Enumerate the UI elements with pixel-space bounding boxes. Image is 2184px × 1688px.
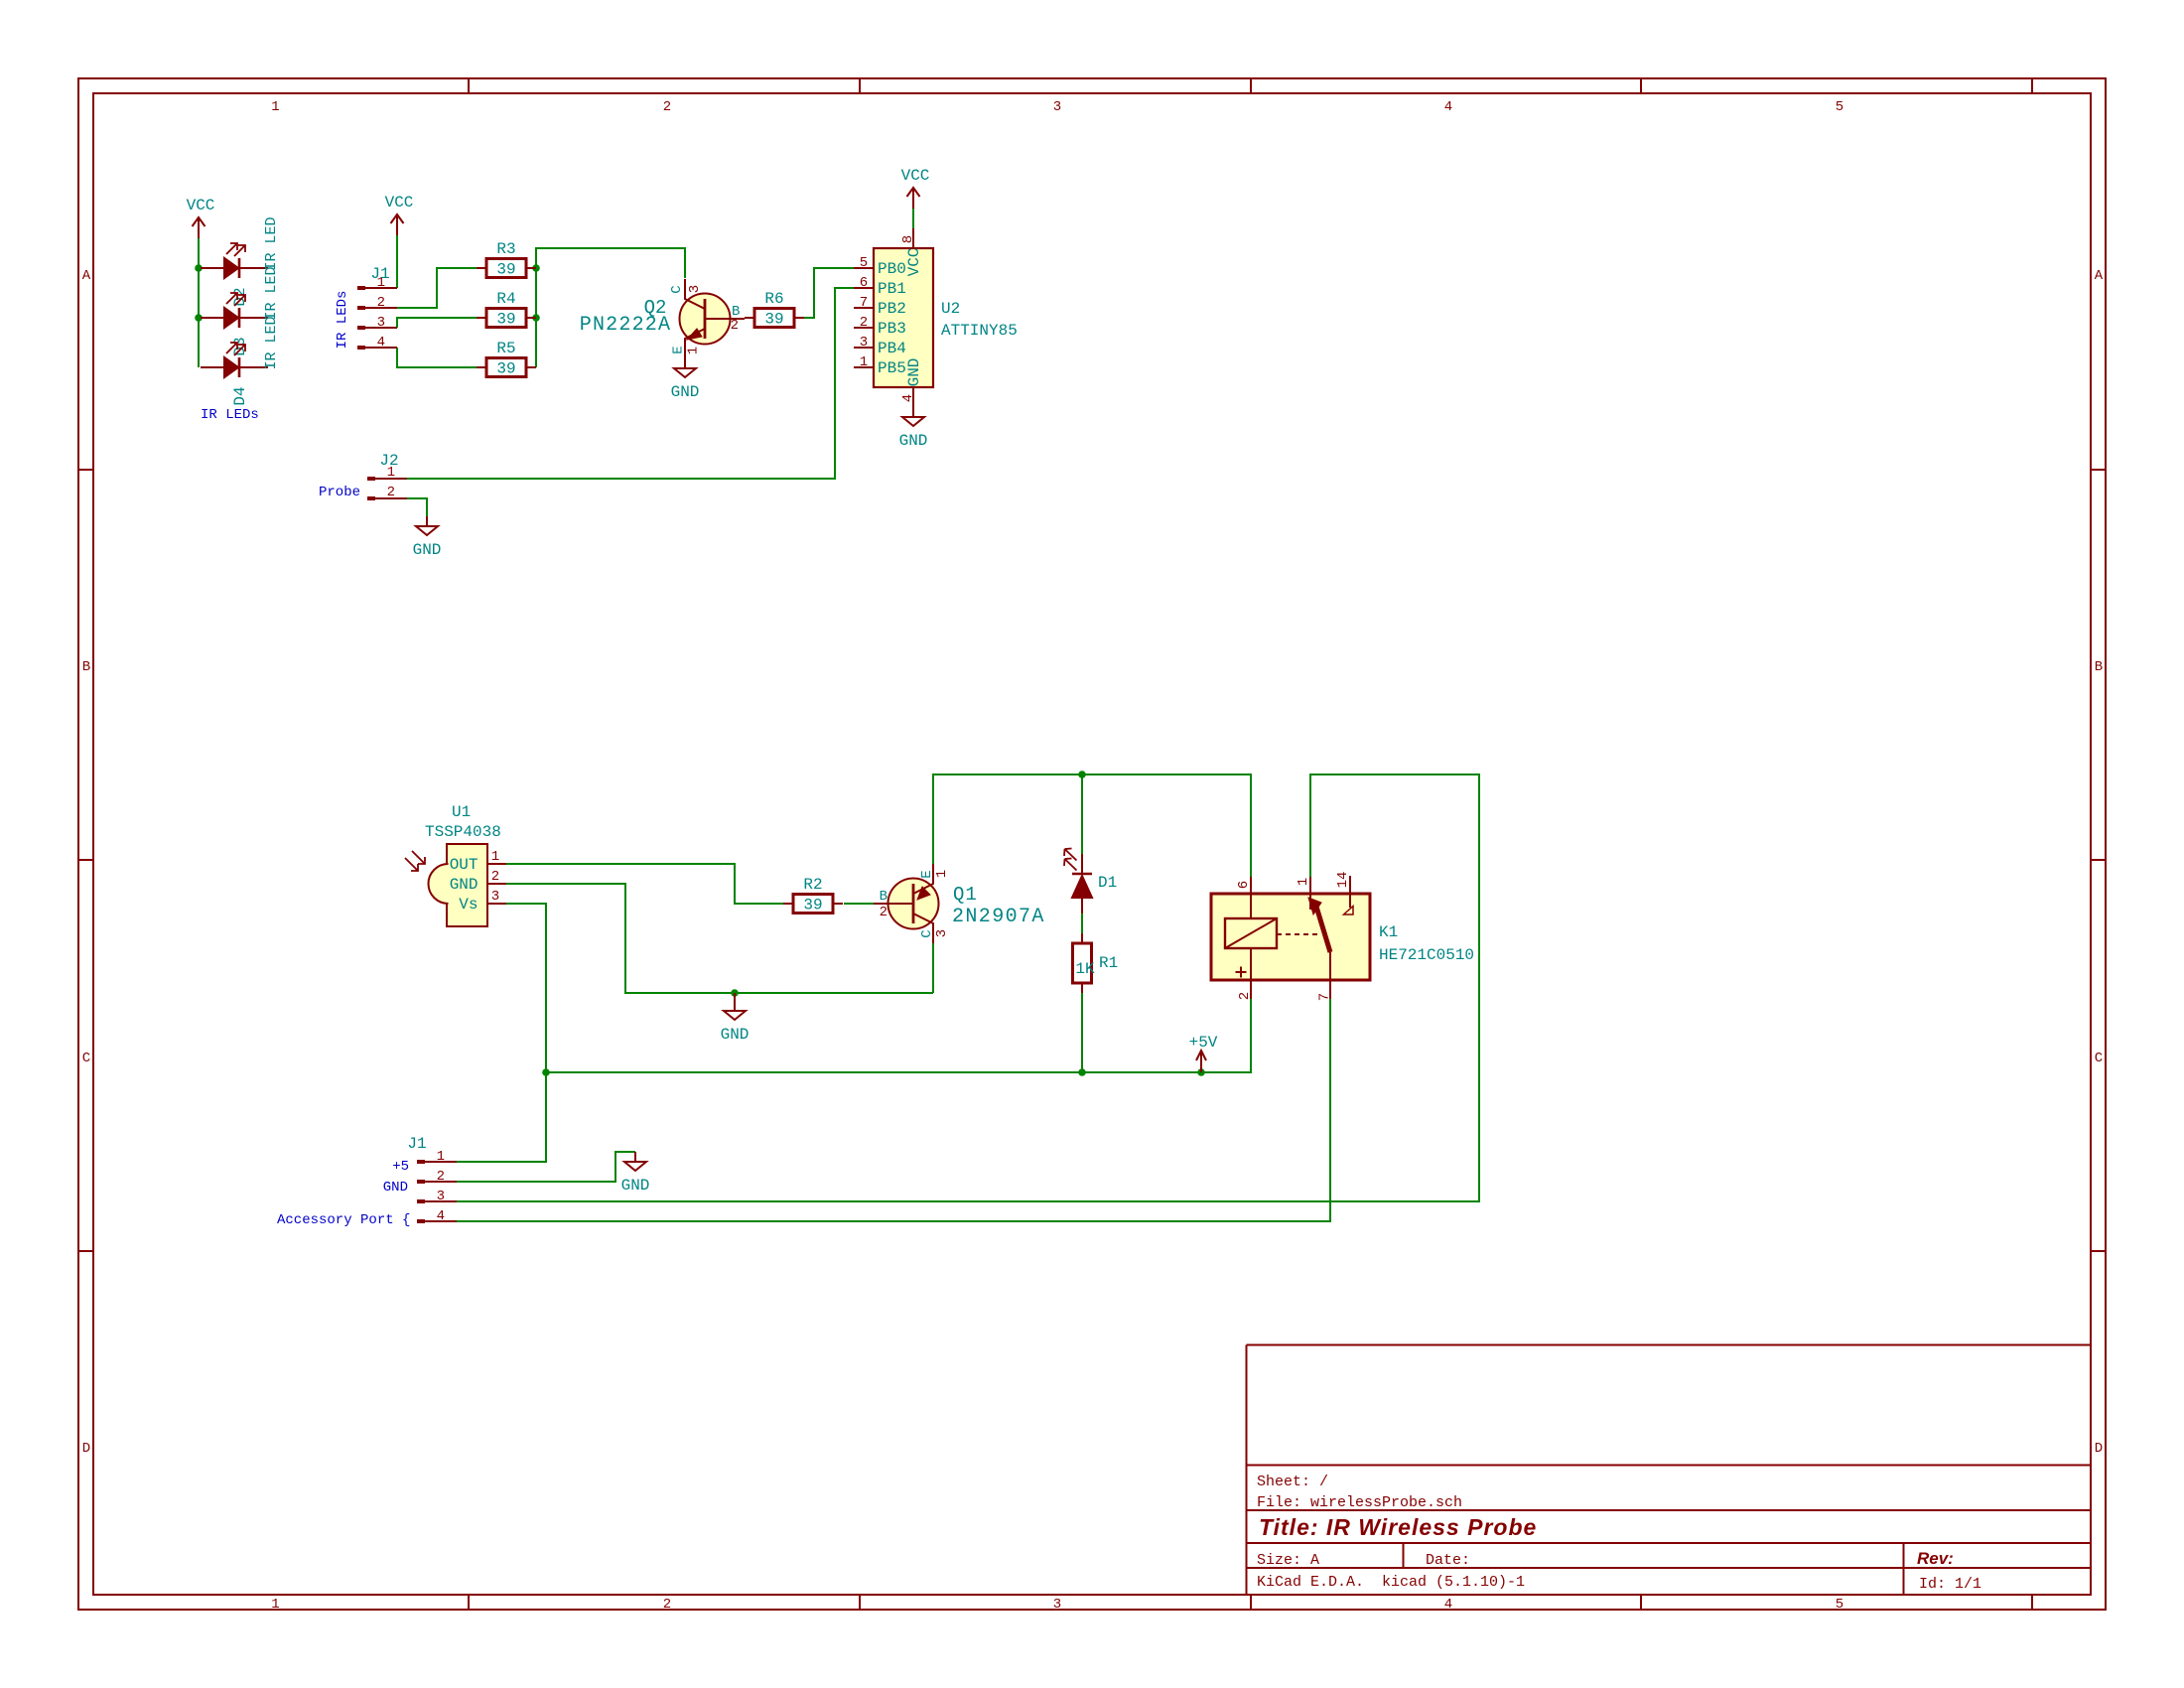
svg-text:B: B	[82, 659, 90, 675]
diode D2 IR LED	[201, 267, 224, 269]
svg-text:PB4: PB4	[878, 340, 906, 357]
svg-text:2: 2	[491, 869, 499, 885]
resistor R3 39	[477, 267, 486, 269]
svg-text:Accessory Port {: Accessory Port {	[277, 1212, 410, 1228]
wire D1 branch from rail	[1081, 774, 1083, 854]
svg-text:Rev:: Rev:	[1917, 1549, 1954, 1568]
frame row ticks	[78, 469, 93, 471]
relay pin 1	[1309, 877, 1311, 910]
svg-text:2: 2	[731, 318, 739, 334]
wire Q1 emitter to relay pin6	[933, 774, 1251, 877]
svg-text:PB1: PB1	[878, 280, 906, 298]
ic U2 ATTINY85	[874, 248, 933, 387]
wire J1 pin2 to GND symbol	[457, 1152, 635, 1182]
svg-text:C: C	[2095, 1051, 2103, 1066]
wire R2 to Q1 base	[844, 903, 874, 905]
svg-text:Id: 1/1: Id: 1/1	[1919, 1576, 1981, 1593]
svg-text:5: 5	[1836, 99, 1843, 115]
svg-text:1: 1	[437, 1149, 445, 1165]
svg-text:+5V: +5V	[1189, 1034, 1218, 1052]
ground (J2)	[426, 516, 428, 526]
ground (Q2 emitter)	[684, 358, 686, 368]
svg-text:1K: 1K	[1075, 960, 1095, 978]
svg-text:HE721C0510: HE721C0510	[1379, 946, 1474, 964]
svg-text:7: 7	[860, 295, 868, 311]
svg-text:2: 2	[377, 295, 385, 311]
connector J2 (Probe)	[367, 477, 375, 481]
svg-text:GND: GND	[721, 1026, 750, 1044]
wire VCC to J1 pin1	[396, 235, 398, 288]
svg-text:1: 1	[271, 1597, 279, 1613]
ground (U2)	[912, 407, 914, 417]
relay coil	[1225, 918, 1277, 948]
svg-text:GND: GND	[621, 1177, 650, 1195]
wire J1 pin3 to R4	[397, 318, 477, 328]
svg-text:VCC: VCC	[187, 197, 215, 214]
svg-text:1: 1	[686, 347, 702, 354]
svg-text:IR LEDs: IR LEDs	[335, 291, 350, 350]
resistor R1 1K	[1073, 943, 1092, 983]
svg-text:3: 3	[437, 1189, 445, 1204]
svg-text:PB5: PB5	[878, 359, 906, 377]
svg-text:OUT: OUT	[450, 856, 478, 874]
svg-text:IR LEDs: IR LEDs	[201, 407, 259, 423]
svg-text:1: 1	[934, 870, 950, 878]
junction D2-D3	[195, 314, 203, 322]
svg-text:Date:: Date:	[1426, 1552, 1470, 1569]
svg-text:2: 2	[1237, 992, 1253, 1000]
junction VCC-D2	[195, 264, 203, 272]
svg-text:File: wirelessProbe.sch: File: wirelessProbe.sch	[1257, 1494, 1462, 1511]
svg-text:GND: GND	[671, 383, 700, 401]
svg-text:PB0: PB0	[878, 260, 906, 278]
svg-text:Size: A: Size: A	[1257, 1552, 1319, 1569]
transistor Q1 2N2907A	[888, 879, 939, 929]
title block	[1247, 1345, 2092, 1596]
junction +5V rail Vs	[542, 1068, 550, 1076]
svg-text:1: 1	[491, 849, 499, 865]
relay pin 6	[1250, 877, 1252, 918]
svg-text:J1: J1	[370, 265, 389, 283]
wire J1 pin4 to R5	[397, 348, 477, 367]
svg-text:1: 1	[1296, 878, 1311, 886]
power VCC (LED rail)	[198, 217, 200, 238]
wire Q1 collector to ground line	[932, 943, 934, 993]
svg-text:IR LED: IR LED	[263, 216, 280, 270]
svg-text:2: 2	[437, 1169, 445, 1185]
svg-text:PB3: PB3	[878, 320, 906, 338]
junction ground line	[731, 989, 739, 997]
svg-text:PB2: PB2	[878, 300, 906, 318]
svg-text:A: A	[82, 268, 91, 284]
svg-text:R1: R1	[1099, 954, 1118, 972]
diode D3 IR LED	[201, 317, 224, 319]
svg-text:2: 2	[663, 99, 671, 115]
svg-text:14: 14	[1335, 872, 1351, 889]
svg-text:D4: D4	[231, 386, 249, 405]
svg-text:7: 7	[1317, 993, 1333, 1001]
junction +5V rail symbol	[1197, 1068, 1205, 1076]
power +5V	[1200, 1051, 1202, 1072]
svg-text:D1: D1	[1098, 874, 1117, 892]
resistor R2 39	[783, 903, 793, 905]
svg-text:Title: IR Wireless Probe: Title: IR Wireless Probe	[1259, 1514, 1537, 1540]
svg-text:U2: U2	[941, 300, 960, 318]
junction R4 output	[532, 314, 540, 322]
svg-text:39: 39	[496, 261, 515, 279]
svg-text:+5: +5	[392, 1159, 409, 1175]
svg-text:A: A	[2095, 268, 2104, 284]
svg-text:3: 3	[860, 335, 868, 351]
svg-text:C: C	[669, 285, 685, 293]
wire VCC rail to LED anodes	[198, 238, 200, 367]
svg-text:J2: J2	[379, 452, 398, 470]
relay plus sign	[1236, 967, 1247, 978]
svg-text:R5: R5	[496, 340, 515, 357]
svg-text:4: 4	[1444, 1597, 1452, 1613]
svg-text:2: 2	[880, 905, 887, 920]
svg-text:E: E	[919, 870, 935, 878]
svg-text:3: 3	[1053, 99, 1061, 115]
svg-text:C: C	[919, 929, 935, 937]
svg-text:2: 2	[860, 315, 868, 331]
svg-text:ATTINY85: ATTINY85	[941, 322, 1018, 340]
junction R3 output	[532, 264, 540, 272]
svg-text:TSSP4038: TSSP4038	[425, 823, 501, 841]
svg-text:39: 39	[496, 311, 515, 329]
svg-text:2: 2	[663, 1597, 671, 1613]
svg-text:GND: GND	[413, 541, 442, 559]
svg-text:E: E	[671, 346, 687, 353]
svg-text:B: B	[880, 889, 887, 905]
svg-text:Sheet: /: Sheet: /	[1257, 1474, 1328, 1490]
power VCC (J1)	[396, 214, 398, 235]
svg-text:R3: R3	[496, 240, 515, 258]
wire R3/R4/R5 common to Q2 collector	[536, 248, 685, 367]
svg-text:39: 39	[496, 360, 515, 378]
svg-text:VCC: VCC	[385, 194, 414, 211]
svg-text:Vs: Vs	[459, 896, 478, 914]
resistor R4 39	[477, 317, 486, 319]
relay switch arm	[1316, 907, 1330, 952]
svg-text:KiCad E.D.A. kicad (5.1.10)-1: KiCad E.D.A. kicad (5.1.10)-1	[1257, 1574, 1525, 1591]
wire U2 VCC pin	[912, 209, 914, 228]
svg-text:VCC: VCC	[901, 167, 930, 185]
svg-text:4: 4	[377, 335, 385, 351]
power VCC (U2)	[912, 188, 914, 209]
svg-text:D: D	[82, 1441, 90, 1457]
svg-text:R2: R2	[803, 876, 822, 894]
relay pin 2	[1250, 948, 1252, 999]
svg-text:4: 4	[437, 1208, 445, 1224]
svg-text:GND: GND	[899, 432, 928, 450]
wire U1 GND to ground line	[506, 884, 933, 993]
svg-text:3: 3	[377, 315, 385, 331]
connector J1 (IR LEDs)	[357, 286, 365, 290]
svg-text:4: 4	[900, 394, 916, 402]
resistor R6 39	[745, 317, 754, 319]
svg-text:R4: R4	[496, 290, 515, 308]
wire U1 OUT to R2	[506, 864, 784, 904]
svg-text:GND: GND	[905, 358, 923, 387]
svg-text:B: B	[2095, 659, 2103, 675]
relay NC contact mark	[1344, 907, 1354, 915]
svg-text:C: C	[82, 1051, 90, 1066]
wire R6 to U2 PB0	[804, 268, 854, 318]
connector J1 (Accessory Port)	[417, 1160, 425, 1164]
junction coil rail D1	[1078, 771, 1086, 778]
svg-text:3: 3	[934, 929, 950, 937]
wire R1 to +5V rail	[1081, 993, 1083, 1072]
svg-text:J1: J1	[407, 1135, 426, 1153]
svg-text:3: 3	[1053, 1597, 1061, 1613]
wire relay pin1 to J1 pin3	[457, 774, 1479, 1201]
wire U1 Vs down to +5V rail and J1 pin1	[457, 904, 546, 1162]
svg-text:1: 1	[860, 354, 868, 370]
wire +5V rail	[546, 999, 1251, 1072]
svg-text:Probe: Probe	[319, 485, 360, 500]
svg-text:8: 8	[900, 235, 916, 243]
junction +5V rail R1	[1078, 1068, 1086, 1076]
wire relay pin7 to J1 pin4	[457, 999, 1330, 1221]
svg-text:Q1: Q1	[953, 884, 978, 906]
svg-text:1: 1	[271, 99, 279, 115]
ground (signal line)	[734, 993, 736, 1011]
svg-text:R6: R6	[764, 290, 783, 308]
svg-text:39: 39	[803, 897, 822, 914]
frame column ticks	[468, 78, 470, 93]
svg-text:3: 3	[687, 285, 703, 293]
svg-text:2: 2	[387, 485, 395, 500]
svg-text:6: 6	[860, 275, 868, 291]
svg-text:PN2222A: PN2222A	[580, 314, 671, 337]
svg-text:IR LED: IR LED	[263, 316, 280, 369]
relay dashed actuator link	[1277, 933, 1318, 935]
svg-text:VCC: VCC	[905, 248, 923, 277]
diode D1	[1081, 854, 1083, 874]
ic U1 TSSP4038	[447, 844, 487, 926]
ground (J1 accessory)	[634, 1152, 636, 1162]
resistor R5 39	[477, 366, 486, 368]
svg-text:3: 3	[491, 889, 499, 905]
wire J1 pin2 to R3	[397, 268, 477, 308]
svg-text:K1: K1	[1379, 923, 1398, 941]
wire U2 PB1 to J2 pin1	[407, 288, 854, 479]
svg-text:5: 5	[860, 255, 868, 271]
svg-text:4: 4	[1444, 99, 1452, 115]
relay pin 14	[1349, 876, 1351, 908]
svg-text:U1: U1	[452, 803, 471, 821]
svg-text:5: 5	[1836, 1597, 1843, 1613]
svg-text:GND: GND	[450, 876, 478, 894]
relay pin 7	[1329, 952, 1331, 999]
svg-text:39: 39	[764, 311, 783, 329]
svg-text:D: D	[2095, 1441, 2103, 1457]
wire J2 pin2 to GND	[407, 498, 427, 516]
svg-text:IR LED: IR LED	[263, 266, 280, 320]
transistor Q2 PN2222A	[680, 294, 731, 345]
diode D4 IR LED	[201, 366, 224, 368]
svg-text:2N2907A: 2N2907A	[952, 906, 1045, 928]
svg-text:6: 6	[1236, 881, 1252, 889]
svg-text:GND: GND	[383, 1180, 408, 1196]
relay K1 HE721C0510	[1211, 894, 1370, 980]
